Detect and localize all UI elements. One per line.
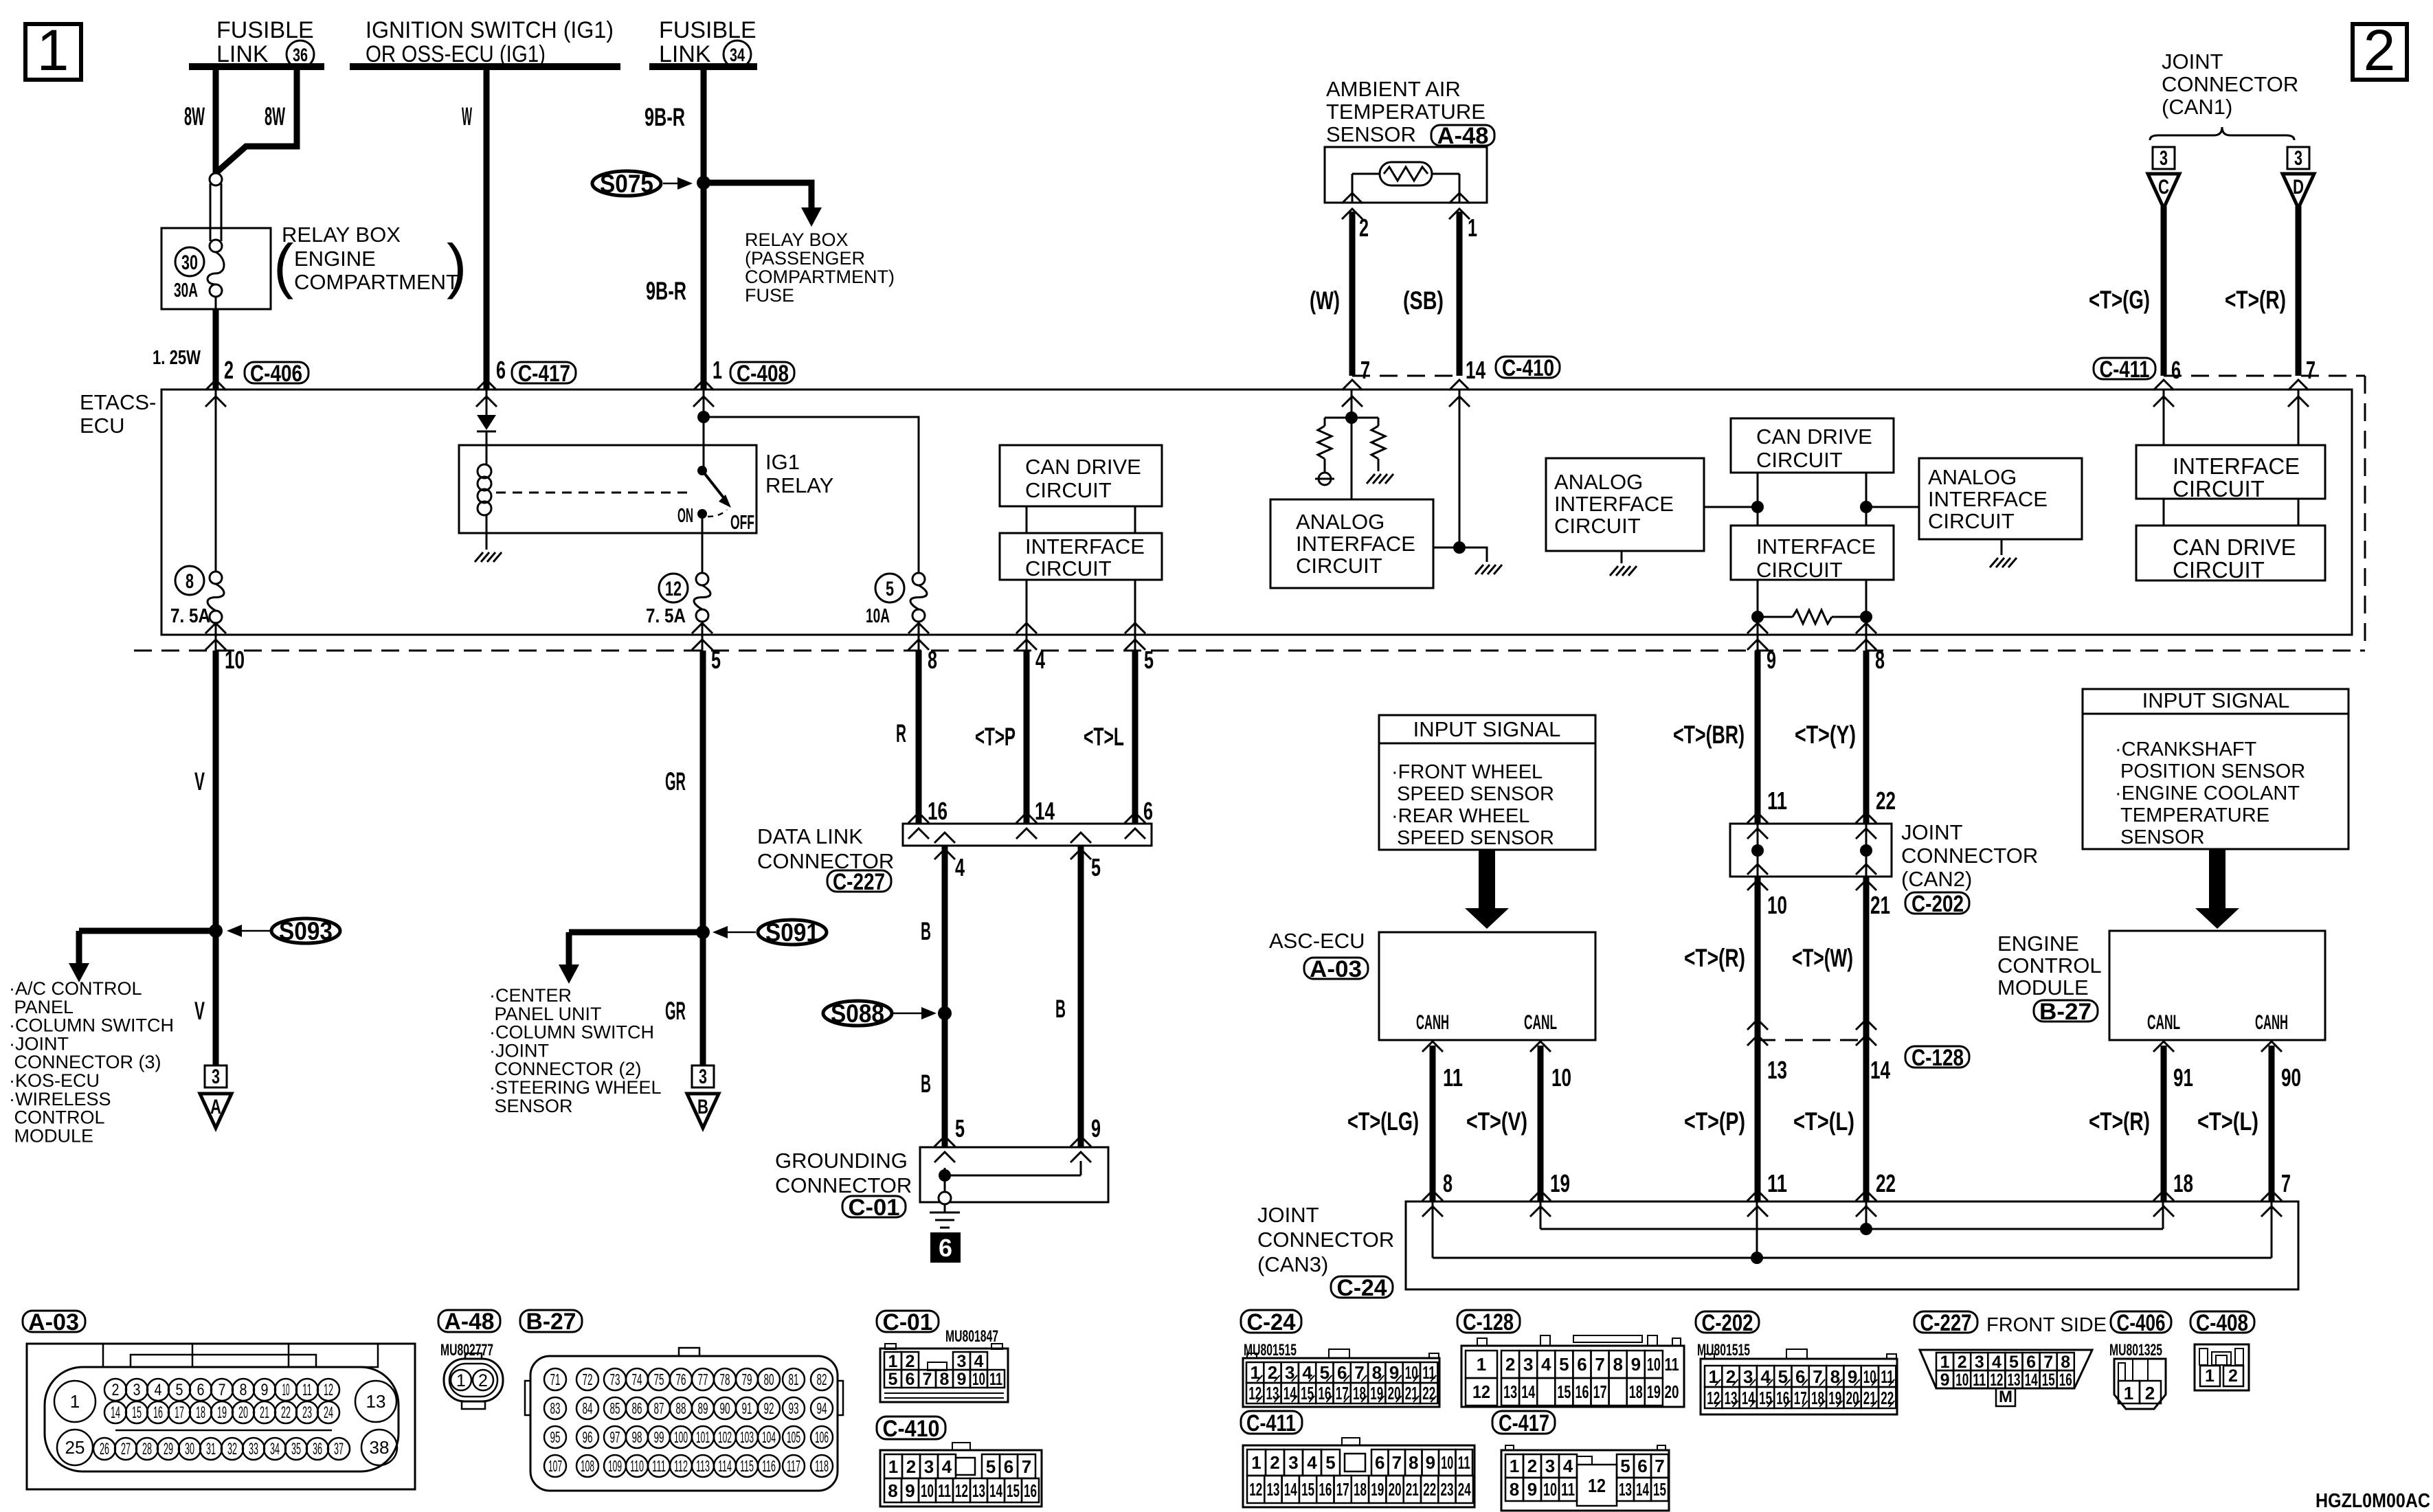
ETACS-ECU dashed extension: [134, 650, 2365, 652]
DLC pin 6 chevrons: [1125, 813, 1145, 823]
svg-text:V: V: [194, 997, 205, 1025]
svg-text:1. 25W: 1. 25W: [153, 347, 201, 369]
wire T(G) from joint connector C: [2161, 206, 2167, 376]
svg-text:<T>(R): <T>(R): [2225, 286, 2286, 314]
svg-text:78: 78: [720, 1370, 730, 1388]
DLC pin 16 chevrons: [908, 813, 929, 823]
svg-text:POSITION SENSOR: POSITION SENSOR: [2115, 760, 2305, 782]
wire 8W right branch: [216, 63, 297, 173]
svg-text:4: 4: [1541, 1354, 1551, 1375]
svg-text:30A: 30A: [174, 280, 198, 302]
svg-text:11: 11: [1767, 787, 1787, 815]
svg-text:22: 22: [281, 1403, 291, 1422]
svg-text:8: 8: [1875, 646, 1885, 674]
svg-text:34: 34: [730, 45, 745, 65]
svg-text:1: 1: [713, 356, 722, 384]
svg-text:C-408: C-408: [737, 361, 789, 387]
fuse 5 circled number: [875, 574, 904, 602]
svg-text:A-03: A-03: [28, 1309, 79, 1335]
svg-text:B-27: B-27: [526, 1309, 576, 1335]
svg-text:11: 11: [989, 1370, 1002, 1389]
thermistor symbol: [1380, 162, 1432, 185]
wire 8W left branch: [213, 63, 219, 174]
svg-text:6: 6: [939, 1234, 952, 1262]
svg-text:15: 15: [132, 1403, 142, 1422]
analog box2 ground wire: [1621, 551, 1623, 563]
svg-text:MU801515: MU801515: [1244, 1341, 1297, 1359]
svg-text:8: 8: [1510, 1479, 1519, 1500]
connector label C-128 schematic: [1905, 1046, 1969, 1068]
svg-text:112: 112: [674, 1457, 688, 1475]
svg-text:7: 7: [1392, 1452, 1402, 1473]
svg-text:CIRCUIT: CIRCUIT: [1296, 554, 1382, 578]
svg-text:CONNECTOR (2): CONNECTOR (2): [489, 1059, 642, 1079]
svg-text:10: 10: [1551, 1063, 1571, 1092]
pin 2 connector chevrons: [205, 380, 226, 390]
svg-text:<T>(Y): <T>(Y): [1795, 721, 1856, 749]
svg-text:9: 9: [1631, 1354, 1641, 1375]
wires from interface middle to pins 9 and 8: [1757, 580, 1759, 635]
svg-text:<T>(V): <T>(V): [1466, 1107, 1527, 1136]
svg-text:CIRCUIT: CIRCUIT: [1025, 478, 1112, 502]
svg-text:GR: GR: [665, 767, 686, 796]
svg-text:B: B: [1055, 995, 1066, 1023]
CAN drive circuit box right: [2136, 526, 2325, 580]
svg-text:23: 23: [302, 1403, 312, 1422]
C-24 pin 19 chevrons: [1530, 1191, 1551, 1201]
svg-text:7: 7: [2281, 1169, 2291, 1197]
C-24 pin 8 chevrons: [1422, 1191, 1443, 1201]
svg-text:5: 5: [1091, 853, 1101, 881]
svg-text:14: 14: [1870, 1056, 1890, 1084]
svg-text:4: 4: [1992, 1353, 2002, 1372]
svg-text:19: 19: [1371, 1479, 1384, 1500]
svg-text:10A: 10A: [866, 605, 890, 627]
svg-text:5: 5: [711, 646, 721, 674]
svg-text:11: 11: [302, 1381, 312, 1399]
svg-text:104: 104: [762, 1428, 776, 1446]
svg-text:5: 5: [888, 1370, 898, 1389]
svg-text:11: 11: [1665, 1354, 1679, 1375]
svg-text:13: 13: [1267, 1479, 1280, 1500]
page connector triangle A: [200, 1094, 232, 1128]
svg-text:FUSIBLE: FUSIBLE: [659, 17, 756, 43]
svg-text:106: 106: [815, 1428, 829, 1446]
dashed boundary between pins 7 and 14: [1352, 375, 1459, 377]
svg-text:<T>(L): <T>(L): [1793, 1107, 1854, 1136]
connector diagram C-227 pinout: [1920, 1350, 2092, 1406]
svg-text:CONNECTOR: CONNECTOR: [2162, 72, 2298, 96]
svg-text:C-128: C-128: [1911, 1045, 1964, 1071]
data link connector label: [757, 824, 894, 873]
wire T(R) CAN2 to C-128 pin 13: [1755, 877, 1761, 1040]
svg-text:3: 3: [2294, 147, 2302, 170]
wire T(L) to C-24 pin 22: [1863, 1040, 1870, 1201]
svg-text:108: 108: [581, 1457, 594, 1475]
svg-text:38: 38: [370, 1437, 390, 1458]
svg-text:FUSIBLE: FUSIBLE: [216, 17, 314, 43]
svg-text:B-27: B-27: [2039, 999, 2092, 1025]
ASC CANL pin chevron: [1530, 1041, 1551, 1052]
svg-text:14: 14: [1035, 797, 1055, 825]
wires from interface circuit to pins 4 and 5: [1026, 580, 1028, 635]
svg-text:3: 3: [1545, 1456, 1555, 1476]
connector label C-411: [2094, 358, 2155, 379]
svg-text:V: V: [194, 767, 205, 796]
svg-text:14: 14: [1521, 1381, 1535, 1402]
svg-text:12: 12: [665, 578, 682, 600]
svg-text:9: 9: [261, 1381, 269, 1399]
svg-text:12: 12: [1249, 1479, 1262, 1500]
svg-text:A: A: [210, 1096, 221, 1118]
svg-text:INTERFACE: INTERFACE: [1554, 492, 1674, 516]
CAN drive circuit box middle: [1731, 418, 1894, 473]
connector label C-227 schematic: [827, 870, 891, 892]
splice S093 oval: [271, 918, 340, 943]
splice S091 arrow: [715, 932, 756, 934]
svg-text:MODULE: MODULE: [1997, 975, 2089, 1000]
svg-text:30: 30: [185, 1440, 194, 1458]
svg-text:16: 16: [153, 1403, 163, 1422]
wire T P from pin 4 to DLC pin 14: [1024, 651, 1030, 824]
svg-text:16: 16: [1576, 1381, 1589, 1402]
svg-text:INTERFACE: INTERFACE: [2173, 453, 2300, 479]
connector diagram C-406 label: [2111, 1311, 2171, 1333]
svg-text:1: 1: [70, 1391, 80, 1412]
wire W from ignition switch to ETACS pin 6: [484, 63, 490, 390]
branch wire to A/C control panel etc: [79, 928, 216, 934]
svg-text:1: 1: [2205, 1366, 2215, 1386]
grounding connector label: [775, 1149, 912, 1197]
input signal block arrow ECM: [2195, 849, 2239, 929]
branch wire to center panel unit etc: [569, 929, 703, 936]
svg-text:OFF: OFF: [730, 512, 754, 534]
connector label A-03 schematic: [1304, 958, 1368, 979]
ETACS bottom pin 5 at x=1022: [702, 635, 704, 651]
svg-text:13: 13: [972, 1480, 985, 1501]
wire GR from ETACS pin 5: [700, 651, 706, 1065]
svg-text:88: 88: [676, 1399, 686, 1417]
CAN2 pin 10 chevrons: [1747, 864, 1768, 875]
svg-text:1: 1: [1940, 1353, 1950, 1372]
svg-text:110: 110: [630, 1457, 644, 1475]
C-24 pin 18 chevrons: [2153, 1191, 2174, 1201]
svg-text:18: 18: [1354, 1479, 1367, 1500]
svg-text:10: 10: [972, 1370, 985, 1389]
ETACS bottom pin 5 at x=1652: [1134, 635, 1136, 651]
svg-text:·KOS-ECU: ·KOS-ECU: [9, 1070, 100, 1091]
grounding pin 9 chevrons: [1070, 1136, 1091, 1147]
svg-text:16: 16: [1319, 1479, 1332, 1500]
relay box (engine compartment) outline: [161, 228, 271, 309]
fusible link 34 label: [659, 17, 756, 68]
svg-text:DATA LINK: DATA LINK: [757, 824, 863, 848]
junction dots CAN middle: [1751, 501, 1764, 513]
svg-text:14: 14: [1466, 356, 1485, 384]
svg-text:13: 13: [1767, 1056, 1787, 1084]
svg-text:114: 114: [718, 1457, 732, 1475]
pin 14 connector chevrons: [1449, 380, 1470, 390]
svg-text:8: 8: [1409, 1452, 1418, 1473]
svg-text:A-48: A-48: [1437, 123, 1489, 149]
svg-text:20: 20: [238, 1403, 248, 1422]
svg-text:14: 14: [111, 1403, 120, 1422]
junction dot pin 14: [1453, 541, 1466, 554]
svg-text:6: 6: [1143, 797, 1153, 825]
links CAN drive middle to interface middle: [1757, 473, 1759, 526]
svg-text:MODULE: MODULE: [9, 1125, 93, 1146]
svg-text:115: 115: [740, 1457, 754, 1475]
svg-text:3: 3: [924, 1456, 934, 1477]
wire (SB) from sensor pin 1: [1457, 212, 1463, 376]
svg-text:INTERFACE: INTERFACE: [1756, 534, 1876, 558]
svg-text:98: 98: [632, 1428, 642, 1446]
connector diagram C-202 label: [1696, 1311, 1759, 1333]
svg-text:2: 2: [1527, 1456, 1537, 1476]
svg-text:8: 8: [928, 646, 937, 674]
svg-text:11: 11: [1443, 1063, 1463, 1092]
svg-text:COMPARTMENT: COMPARTMENT: [294, 270, 459, 294]
fuse 8 circled number: [175, 566, 204, 595]
svg-text:19: 19: [1550, 1169, 1570, 1197]
svg-text:TEMPERATURE: TEMPERATURE: [2115, 804, 2269, 826]
svg-text:12: 12: [1707, 1388, 1720, 1408]
joint connector CAN3 box: [1406, 1201, 2298, 1289]
svg-text:118: 118: [815, 1457, 829, 1475]
CAN drive circuit box left: [1000, 445, 1162, 506]
svg-text:9: 9: [957, 1370, 967, 1389]
svg-text:16: 16: [928, 797, 948, 825]
connector label C-01 schematic: [842, 1196, 906, 1217]
svg-text:·A/C CONTROL: ·A/C CONTROL: [9, 978, 142, 999]
DLC pin 5 chevrons: [1070, 833, 1091, 843]
svg-text:105: 105: [787, 1428, 800, 1446]
svg-text:83: 83: [550, 1399, 561, 1417]
svg-text:2: 2: [1505, 1354, 1515, 1375]
svg-text:R: R: [896, 719, 906, 747]
svg-text:10: 10: [1955, 1370, 1969, 1390]
svg-text:9: 9: [1527, 1479, 1537, 1500]
svg-text:8: 8: [240, 1381, 247, 1399]
svg-text:22: 22: [1881, 1388, 1894, 1408]
svg-text:1: 1: [1251, 1452, 1261, 1473]
svg-text:2: 2: [2228, 1366, 2238, 1386]
svg-text:2: 2: [1958, 1353, 1967, 1372]
svg-text:95: 95: [550, 1428, 561, 1446]
connector diagram A-03 label: [23, 1311, 85, 1332]
svg-text:IG1: IG1: [765, 450, 800, 474]
svg-text:21: 21: [260, 1403, 269, 1422]
wire (W) from sensor pin 2: [1349, 212, 1356, 376]
svg-text:15: 15: [2042, 1370, 2055, 1390]
svg-text:3: 3: [699, 1065, 707, 1088]
svg-text:SENSOR: SENSOR: [489, 1096, 573, 1116]
svg-text:1: 1: [888, 1456, 898, 1477]
ignition switch header: [366, 17, 614, 67]
svg-text:10: 10: [921, 1480, 934, 1501]
links interface right to CAN drive right: [2163, 499, 2165, 526]
svg-text:11: 11: [1881, 1366, 1894, 1387]
svg-text:C-408: C-408: [2196, 1310, 2248, 1336]
wire V from ETACS pin 10: [213, 651, 219, 1065]
connector label C-417 at ETACS pin 6: [512, 362, 576, 383]
svg-text:90: 90: [2281, 1063, 2301, 1092]
connector diagram C-408 label: [2190, 1311, 2254, 1333]
svg-text:C-406: C-406: [2117, 1310, 2166, 1336]
svg-text:3: 3: [212, 1065, 220, 1088]
svg-text:TEMPERATURE: TEMPERATURE: [1326, 100, 1485, 124]
svg-text:5: 5: [176, 1381, 183, 1399]
wire from relay ON contact to fuse 12: [702, 519, 704, 573]
svg-text:CIRCUIT: CIRCUIT: [1928, 509, 2015, 533]
svg-text:CANH: CANH: [1416, 1011, 1449, 1034]
svg-text:<T>L: <T>L: [1084, 723, 1124, 751]
svg-text:20: 20: [1846, 1388, 1859, 1408]
ETACS bottom pin 9 at x=2558: [1757, 635, 1759, 651]
svg-text:C-227: C-227: [833, 869, 885, 895]
ETACS-ECU box outline: [161, 390, 2352, 635]
svg-text:<T>(P): <T>(P): [1684, 1107, 1745, 1136]
sensor pin chevrons: [1342, 193, 1363, 203]
svg-text:GROUNDING: GROUNDING: [775, 1149, 908, 1173]
svg-text:CIRCUIT: CIRCUIT: [1554, 514, 1641, 538]
ECM CANL pin chevron: [2153, 1041, 2174, 1052]
svg-text:<T>(R): <T>(R): [2089, 1107, 2150, 1136]
svg-text:<T>(LG): <T>(LG): [1347, 1107, 1419, 1136]
svg-text:19: 19: [1370, 1383, 1383, 1403]
svg-text:1: 1: [2124, 1383, 2133, 1403]
IG1 relay coil: [478, 464, 491, 478]
C-128 dashed boundary: [1758, 1039, 1866, 1041]
svg-text:35: 35: [291, 1440, 301, 1458]
ignition switch bus bar: [350, 63, 620, 70]
ground reference 6 black box: [930, 1232, 961, 1263]
svg-text:10: 10: [1405, 1362, 1418, 1383]
svg-text:30: 30: [181, 251, 198, 274]
svg-text:C-227: C-227: [1920, 1310, 1972, 1336]
pull-up resistor right: [1352, 417, 1378, 419]
fusible link 36 bus bar: [189, 63, 324, 70]
svg-text:21: 21: [1406, 1479, 1419, 1500]
connector diagram C-417 pinout: [1501, 1445, 1669, 1511]
svg-text:76: 76: [676, 1370, 686, 1388]
svg-text:INTERFACE: INTERFACE: [1928, 487, 2048, 511]
svg-text:C-01: C-01: [883, 1309, 933, 1335]
grounding connector internal wires: [944, 1168, 946, 1193]
svg-text:7. 5A: 7. 5A: [646, 605, 686, 627]
wire T(BR) from ETACS pin 9: [1755, 651, 1761, 824]
svg-text:12: 12: [324, 1381, 333, 1399]
connector diagram C-128 pinout: [1461, 1335, 1684, 1407]
svg-text:15: 15: [1301, 1479, 1314, 1500]
svg-text:18: 18: [1353, 1383, 1366, 1403]
svg-text:8: 8: [1613, 1354, 1622, 1375]
svg-text:84: 84: [583, 1399, 593, 1417]
connector diagram C-24 pinout: [1243, 1349, 1439, 1407]
pin 6 C-411 chevrons: [2153, 380, 2174, 390]
analog interface circuit box 2: [1546, 458, 1704, 551]
CAN2 pin 22 chevrons: [1856, 813, 1876, 823]
analog interface circuit box 1: [1270, 499, 1433, 588]
ambient air temperature sensor box: [1325, 147, 1487, 203]
joint connector CAN1 triangle C: [2148, 174, 2179, 208]
svg-text:8: 8: [888, 1480, 897, 1501]
fuse 12 element: [696, 573, 708, 585]
analog box3 ground wire: [2001, 539, 2003, 555]
svg-text:7: 7: [923, 1370, 932, 1389]
svg-text:<T>(R): <T>(R): [1684, 944, 1745, 972]
svg-text:96: 96: [583, 1428, 593, 1446]
svg-text:M: M: [1999, 1388, 2012, 1406]
svg-text:2: 2: [224, 356, 234, 384]
svg-text:INPUT SIGNAL: INPUT SIGNAL: [1413, 717, 1561, 741]
svg-text:9B-R: 9B-R: [644, 103, 685, 131]
input signal block arrow ASC: [1465, 850, 1509, 929]
svg-text:19: 19: [1647, 1381, 1661, 1402]
svg-text:3: 3: [957, 1352, 967, 1371]
svg-text:17: 17: [1336, 1383, 1349, 1403]
svg-text:4: 4: [974, 1352, 984, 1371]
wire R from ETACS pin 8 to DLC pin 16: [916, 651, 922, 824]
svg-text:7: 7: [2043, 1353, 2053, 1372]
svg-text:113: 113: [696, 1457, 710, 1475]
svg-text:8W: 8W: [265, 102, 285, 131]
connector diagram A-48 label: [438, 1310, 500, 1332]
svg-text:2: 2: [112, 1381, 120, 1399]
connector label C-24 schematic: [1331, 1276, 1393, 1298]
svg-text:36: 36: [293, 45, 308, 65]
interface circuit box left: [1000, 533, 1162, 580]
svg-text:C-128: C-128: [1463, 1309, 1514, 1335]
svg-text:15: 15: [1653, 1479, 1666, 1500]
connector diagram C-417 label: [1492, 1411, 1555, 1434]
svg-text:2: 2: [478, 1371, 488, 1390]
svg-text:GR: GR: [665, 997, 686, 1025]
pin 6 connector chevrons: [476, 380, 497, 390]
svg-text:12: 12: [955, 1480, 968, 1501]
svg-text:CIRCUIT: CIRCUIT: [2173, 557, 2265, 583]
svg-text:16: 16: [2059, 1370, 2072, 1390]
svg-text:25: 25: [65, 1437, 85, 1458]
svg-text:11: 11: [1422, 1362, 1435, 1383]
svg-text:ANALOG: ANALOG: [1296, 510, 1384, 534]
svg-text:15: 15: [1557, 1381, 1571, 1402]
fuse 30 element: [208, 252, 224, 284]
svg-text:CANL: CANL: [1524, 1011, 1557, 1034]
svg-text:5: 5: [1325, 1452, 1335, 1473]
svg-text:26: 26: [100, 1440, 109, 1458]
interface circuit box right: [2136, 445, 2325, 499]
svg-text:18: 18: [2173, 1169, 2193, 1197]
svg-text:21: 21: [1405, 1383, 1418, 1403]
svg-text:19: 19: [217, 1403, 227, 1422]
svg-text:S091: S091: [765, 918, 819, 947]
svg-text:S075: S075: [600, 170, 653, 198]
svg-text:22: 22: [1876, 1169, 1896, 1197]
svg-text:·STEERING WHEEL: ·STEERING WHEEL: [489, 1077, 662, 1098]
wire T(P) to C-24 pin 11: [1755, 1040, 1761, 1201]
svg-text:RELAY BOX: RELAY BOX: [282, 223, 401, 247]
grounding pin 5 chevrons: [934, 1136, 955, 1147]
svg-text:INPUT SIGNAL: INPUT SIGNAL: [2142, 688, 2290, 712]
svg-text:16: 16: [1776, 1388, 1789, 1408]
svg-text:2: 2: [2364, 18, 2396, 82]
svg-text:C-24: C-24: [1247, 1309, 1296, 1335]
wire T(W) CAN2 to C-128 pin 14: [1863, 877, 1870, 1040]
svg-text:107: 107: [548, 1457, 562, 1475]
splice S075 oval: [592, 171, 661, 196]
svg-text:3: 3: [1523, 1354, 1533, 1375]
